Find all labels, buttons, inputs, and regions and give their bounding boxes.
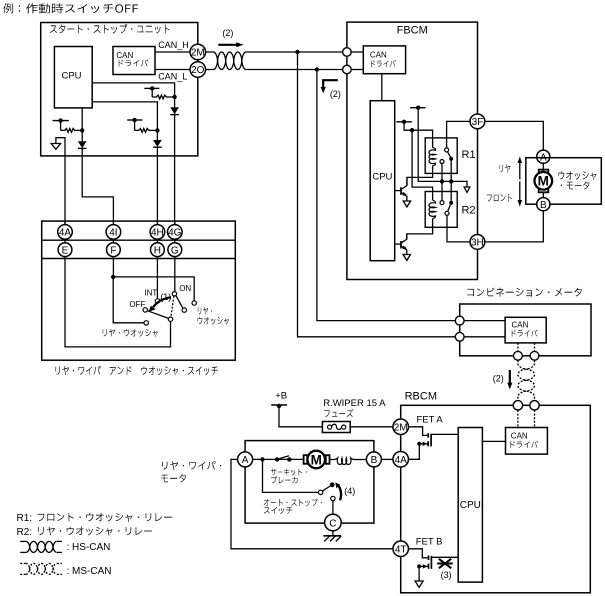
svg-text:G: G	[171, 245, 179, 256]
svg-text:A: A	[242, 455, 249, 466]
svg-text:4A: 4A	[59, 228, 72, 239]
svg-text:CAN: CAN	[511, 432, 528, 441]
svg-text:2M: 2M	[394, 422, 408, 433]
svg-text:H: H	[154, 245, 161, 256]
svg-text:RBCM: RBCM	[405, 390, 437, 402]
svg-text:FET B: FET B	[416, 537, 443, 548]
svg-text:ON: ON	[179, 284, 191, 293]
svg-text:3H: 3H	[471, 238, 484, 249]
svg-text:3F: 3F	[472, 117, 484, 128]
svg-text:(2): (2)	[222, 28, 233, 38]
svg-text:: MS-CAN: : MS-CAN	[67, 566, 112, 577]
svg-text:R2:: R2:	[17, 527, 33, 538]
svg-text:CPU: CPU	[61, 71, 81, 82]
svg-text:M: M	[538, 174, 549, 189]
svg-text:M: M	[311, 452, 322, 467]
svg-text:(4): (4)	[344, 486, 355, 496]
svg-text:(2): (2)	[330, 89, 341, 99]
svg-text:R1: R1	[462, 149, 476, 161]
svg-text:F: F	[110, 245, 116, 256]
svg-text:2O: 2O	[191, 65, 205, 76]
svg-text:R.WIPER 15 A: R.WIPER 15 A	[323, 398, 386, 409]
svg-text:4A: 4A	[395, 455, 408, 466]
svg-text:FET A: FET A	[417, 414, 444, 425]
svg-text:CPU: CPU	[460, 500, 481, 511]
svg-text:4G: 4G	[168, 228, 182, 239]
svg-text:+B: +B	[275, 391, 287, 402]
svg-text:B: B	[371, 455, 378, 466]
svg-text:(2): (2)	[493, 374, 504, 384]
svg-text:(1): (1)	[160, 292, 171, 302]
svg-text:4I: 4I	[109, 228, 117, 239]
svg-text:CAN: CAN	[512, 321, 529, 330]
svg-text:R1:: R1:	[17, 513, 33, 524]
svg-text:4H: 4H	[151, 228, 164, 239]
svg-text:CPU: CPU	[372, 172, 392, 183]
svg-text:CAN: CAN	[116, 51, 133, 60]
svg-text:CAN_L: CAN_L	[158, 71, 187, 81]
svg-text:2M: 2M	[191, 48, 205, 59]
svg-text:(3): (3)	[441, 570, 452, 580]
svg-text:4T: 4T	[395, 544, 407, 555]
svg-text:R2: R2	[462, 204, 476, 216]
svg-text:CAN: CAN	[370, 50, 387, 59]
svg-text:: HS-CAN: : HS-CAN	[67, 542, 111, 553]
svg-text:INT: INT	[144, 289, 157, 298]
svg-text:OFF: OFF	[129, 300, 145, 309]
svg-text:E: E	[62, 245, 69, 256]
svg-text:CAN_H: CAN_H	[158, 40, 189, 50]
svg-text:C: C	[329, 519, 336, 530]
svg-text:B: B	[540, 200, 547, 211]
svg-text:FBCM: FBCM	[397, 25, 428, 37]
